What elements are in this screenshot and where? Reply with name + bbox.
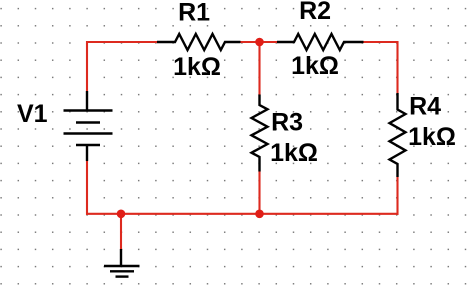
svg-text:1kΩ: 1kΩ (291, 52, 339, 80)
svg-text:R1: R1 (178, 0, 210, 27)
svg-text:R2: R2 (299, 0, 331, 25)
svg-text:R4: R4 (409, 92, 441, 120)
svg-text:1kΩ: 1kΩ (173, 53, 221, 81)
svg-text:1kΩ: 1kΩ (270, 139, 318, 167)
svg-text:R3: R3 (271, 108, 303, 136)
svg-text:1kΩ: 1kΩ (408, 123, 456, 151)
svg-text:V1: V1 (17, 100, 48, 128)
